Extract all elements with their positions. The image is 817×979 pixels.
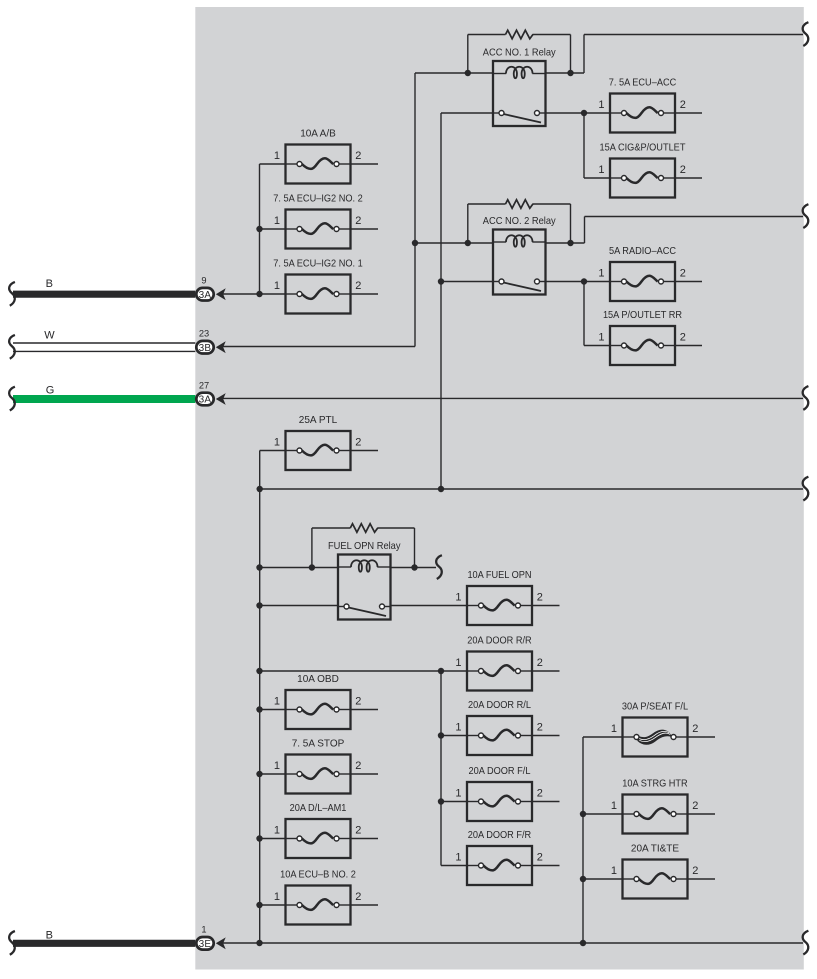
svg-text:2: 2 [692, 723, 698, 735]
svg-text:1: 1 [611, 865, 617, 877]
svg-text:W: W [44, 330, 55, 342]
svg-text:1: 1 [598, 99, 604, 111]
svg-text:1: 1 [598, 332, 604, 344]
svg-text:20A D/L–AM1: 20A D/L–AM1 [290, 803, 347, 814]
svg-text:B: B [46, 278, 53, 290]
svg-text:2: 2 [355, 760, 361, 772]
svg-text:1: 1 [455, 657, 461, 669]
svg-text:ACC NO. 2 Relay: ACC NO. 2 Relay [483, 216, 557, 227]
svg-text:2: 2 [355, 825, 361, 837]
svg-text:20A DOOR F/L: 20A DOOR F/L [469, 766, 531, 777]
svg-text:23: 23 [199, 329, 209, 339]
svg-text:B: B [46, 929, 53, 941]
svg-text:7. 5A ECU–IG2 NO. 1: 7. 5A ECU–IG2 NO. 1 [273, 259, 363, 270]
svg-text:10A FUEL OPN: 10A FUEL OPN [467, 570, 531, 581]
svg-text:7. 5A STOP: 7. 5A STOP [292, 739, 345, 750]
svg-text:1: 1 [274, 696, 280, 708]
svg-text:1: 1 [455, 722, 461, 734]
svg-text:1: 1 [598, 268, 604, 280]
svg-text:1: 1 [455, 788, 461, 800]
svg-text:3B: 3B [199, 343, 212, 354]
svg-text:2: 2 [355, 696, 361, 708]
svg-text:1: 1 [611, 723, 617, 735]
svg-text:10A OBD: 10A OBD [297, 674, 339, 685]
svg-text:3A: 3A [199, 290, 212, 301]
svg-text:2: 2 [680, 332, 686, 344]
svg-text:27: 27 [199, 380, 209, 390]
svg-text:2: 2 [355, 215, 361, 227]
svg-text:G: G [46, 385, 55, 397]
svg-text:2: 2 [680, 164, 686, 176]
svg-text:15A P/OUTLET RR: 15A P/OUTLET RR [603, 310, 682, 321]
svg-text:2: 2 [537, 592, 543, 604]
svg-text:10A ECU–B NO. 2: 10A ECU–B NO. 2 [280, 870, 356, 881]
svg-text:2: 2 [537, 852, 543, 864]
svg-text:2: 2 [537, 722, 543, 734]
svg-text:1: 1 [274, 891, 280, 903]
svg-text:ACC NO. 1 Relay: ACC NO. 1 Relay [483, 48, 557, 59]
svg-text:2: 2 [355, 280, 361, 292]
svg-text:1: 1 [274, 825, 280, 837]
svg-text:9: 9 [201, 276, 206, 286]
svg-text:2: 2 [692, 865, 698, 877]
svg-text:2: 2 [692, 800, 698, 812]
svg-text:2: 2 [680, 268, 686, 280]
svg-text:20A DOOR F/R: 20A DOOR F/R [468, 830, 531, 841]
svg-text:1: 1 [598, 164, 604, 176]
svg-text:3A: 3A [199, 395, 212, 406]
svg-text:2: 2 [355, 437, 361, 449]
svg-text:30A P/SEAT F/L: 30A P/SEAT F/L [622, 702, 688, 713]
svg-text:2: 2 [355, 150, 361, 162]
svg-text:1: 1 [274, 760, 280, 772]
svg-text:2: 2 [537, 657, 543, 669]
svg-text:1: 1 [274, 150, 280, 162]
svg-text:1: 1 [274, 437, 280, 449]
svg-text:15A CIG&P/OUTLET: 15A CIG&P/OUTLET [600, 143, 686, 154]
svg-text:25A PTL: 25A PTL [299, 415, 338, 426]
svg-text:3E: 3E [199, 939, 212, 950]
svg-text:2: 2 [355, 891, 361, 903]
svg-text:7. 5A ECU–ACC: 7. 5A ECU–ACC [609, 78, 677, 89]
svg-text:20A TI&TE: 20A TI&TE [631, 844, 679, 855]
svg-text:10A A/B: 10A A/B [300, 129, 336, 140]
svg-text:2: 2 [537, 788, 543, 800]
svg-text:5A RADIO–ACC: 5A RADIO–ACC [609, 246, 676, 257]
svg-text:1: 1 [201, 925, 206, 935]
svg-text:20A DOOR R/L: 20A DOOR R/L [468, 700, 531, 711]
svg-text:7. 5A ECU–IG2 NO. 2: 7. 5A ECU–IG2 NO. 2 [273, 194, 363, 205]
svg-text:1: 1 [455, 592, 461, 604]
svg-text:20A DOOR R/R: 20A DOOR R/R [467, 636, 531, 647]
svg-text:1: 1 [274, 215, 280, 227]
svg-text:FUEL OPN Relay: FUEL OPN Relay [328, 541, 401, 552]
svg-text:1: 1 [455, 852, 461, 864]
svg-text:1: 1 [274, 280, 280, 292]
svg-text:10A STRG HTR: 10A STRG HTR [622, 779, 687, 790]
svg-text:2: 2 [680, 99, 686, 111]
svg-text:1: 1 [611, 800, 617, 812]
